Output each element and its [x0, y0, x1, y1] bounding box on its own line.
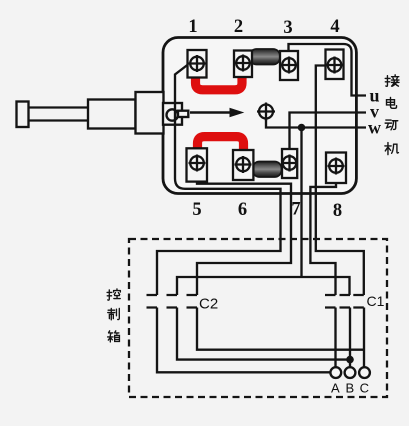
svg-text:B: B	[345, 381, 354, 396]
shaft rod bottom line	[29, 119, 89, 121]
red jumper terminals 1-2	[196, 77, 243, 90]
contact C1 pole3 ticks	[353, 295, 364, 308]
terminal box outline	[163, 38, 356, 194]
wire terminal5 down to riser	[197, 182, 291, 295]
chinese label xiang (box)	[108, 331, 120, 342]
dark link terminals 6-7	[253, 162, 282, 178]
junction dot on B line	[346, 356, 354, 364]
svg-text:6: 6	[238, 200, 247, 220]
contact C1 pole1 ticks	[325, 295, 336, 308]
svg-text:7: 7	[291, 200, 300, 220]
arrow head	[230, 108, 245, 118]
arrow shaft	[190, 111, 230, 114]
terminal 7	[281, 149, 298, 178]
wire terminal4 down to C1 pole3	[316, 66, 364, 296]
wire C1 pole1 down to A	[334, 308, 336, 368]
terminal 8	[326, 153, 346, 184]
svg-text:w: w	[368, 118, 381, 138]
svg-text:C: C	[360, 381, 369, 396]
svg-text:2: 2	[234, 17, 243, 37]
svg-text:4: 4	[330, 17, 339, 37]
svg-text:C2: C2	[199, 296, 218, 313]
red jumper terminals 5-6	[198, 137, 244, 151]
terminal C circle	[359, 367, 370, 378]
chinese label jie (connect)	[385, 75, 399, 86]
wire terminal3 to u	[289, 44, 367, 96]
contact C1 pole2 ticks	[340, 295, 351, 308]
center screw	[257, 103, 275, 121]
wire terminal1 to control box left riser	[157, 65, 281, 296]
terminal 2	[234, 51, 252, 78]
dashed control box	[129, 239, 387, 397]
wire w-junction down to rail	[300, 128, 302, 278]
terminal 5	[187, 148, 208, 181]
contact C2 pole2 ticks	[167, 295, 178, 308]
wire C2 pole1 to circle A	[157, 308, 330, 373]
dark link terminals 2-3	[250, 49, 281, 65]
wire C1 pole2 down to B	[349, 308, 351, 368]
shaft key housing	[163, 103, 182, 125]
shaft rod top line	[29, 106, 89, 108]
svg-text:A: A	[331, 381, 340, 396]
shaft large block	[136, 92, 164, 134]
wire terminal8 jog down to C1 pole1	[310, 183, 336, 295]
wire C1 pole3 down to C	[363, 308, 365, 368]
svg-text:8: 8	[333, 201, 342, 221]
terminal 6	[233, 150, 253, 180]
wire C2 pole3 to C1 pole3 line	[197, 308, 364, 350]
terminal 1	[188, 50, 207, 78]
terminal A circle	[330, 367, 341, 378]
shaft end cap	[17, 102, 29, 128]
terminal 3	[280, 51, 298, 80]
svg-text:3: 3	[283, 18, 292, 38]
contact C2 pole3 ticks	[187, 295, 198, 308]
shaft key tab	[178, 111, 188, 117]
wire center screw to w	[266, 119, 366, 128]
svg-text:5: 5	[192, 200, 201, 220]
wire terminal7 to v	[290, 113, 367, 150]
svg-text:C1: C1	[367, 293, 385, 309]
chinese label dian (electric)	[387, 97, 397, 108]
rail3 shared w to C2 pole2 and C1 pole2	[177, 277, 350, 295]
junction dot on w line	[298, 124, 306, 132]
chinese label dong (move)	[385, 120, 398, 130]
shaft key oval	[167, 109, 178, 120]
chinese label zhi (system)	[108, 308, 120, 319]
chinese label kong (control)	[107, 289, 120, 300]
terminal B circle	[345, 367, 356, 378]
terminal 4	[326, 50, 344, 80]
shaft middle block	[88, 100, 136, 129]
wire C2 pole2 to dot B	[177, 308, 350, 360]
contact C2 pole1 ticks	[147, 295, 158, 308]
chinese label ji (machine)	[385, 143, 399, 155]
svg-text:1: 1	[188, 17, 197, 37]
